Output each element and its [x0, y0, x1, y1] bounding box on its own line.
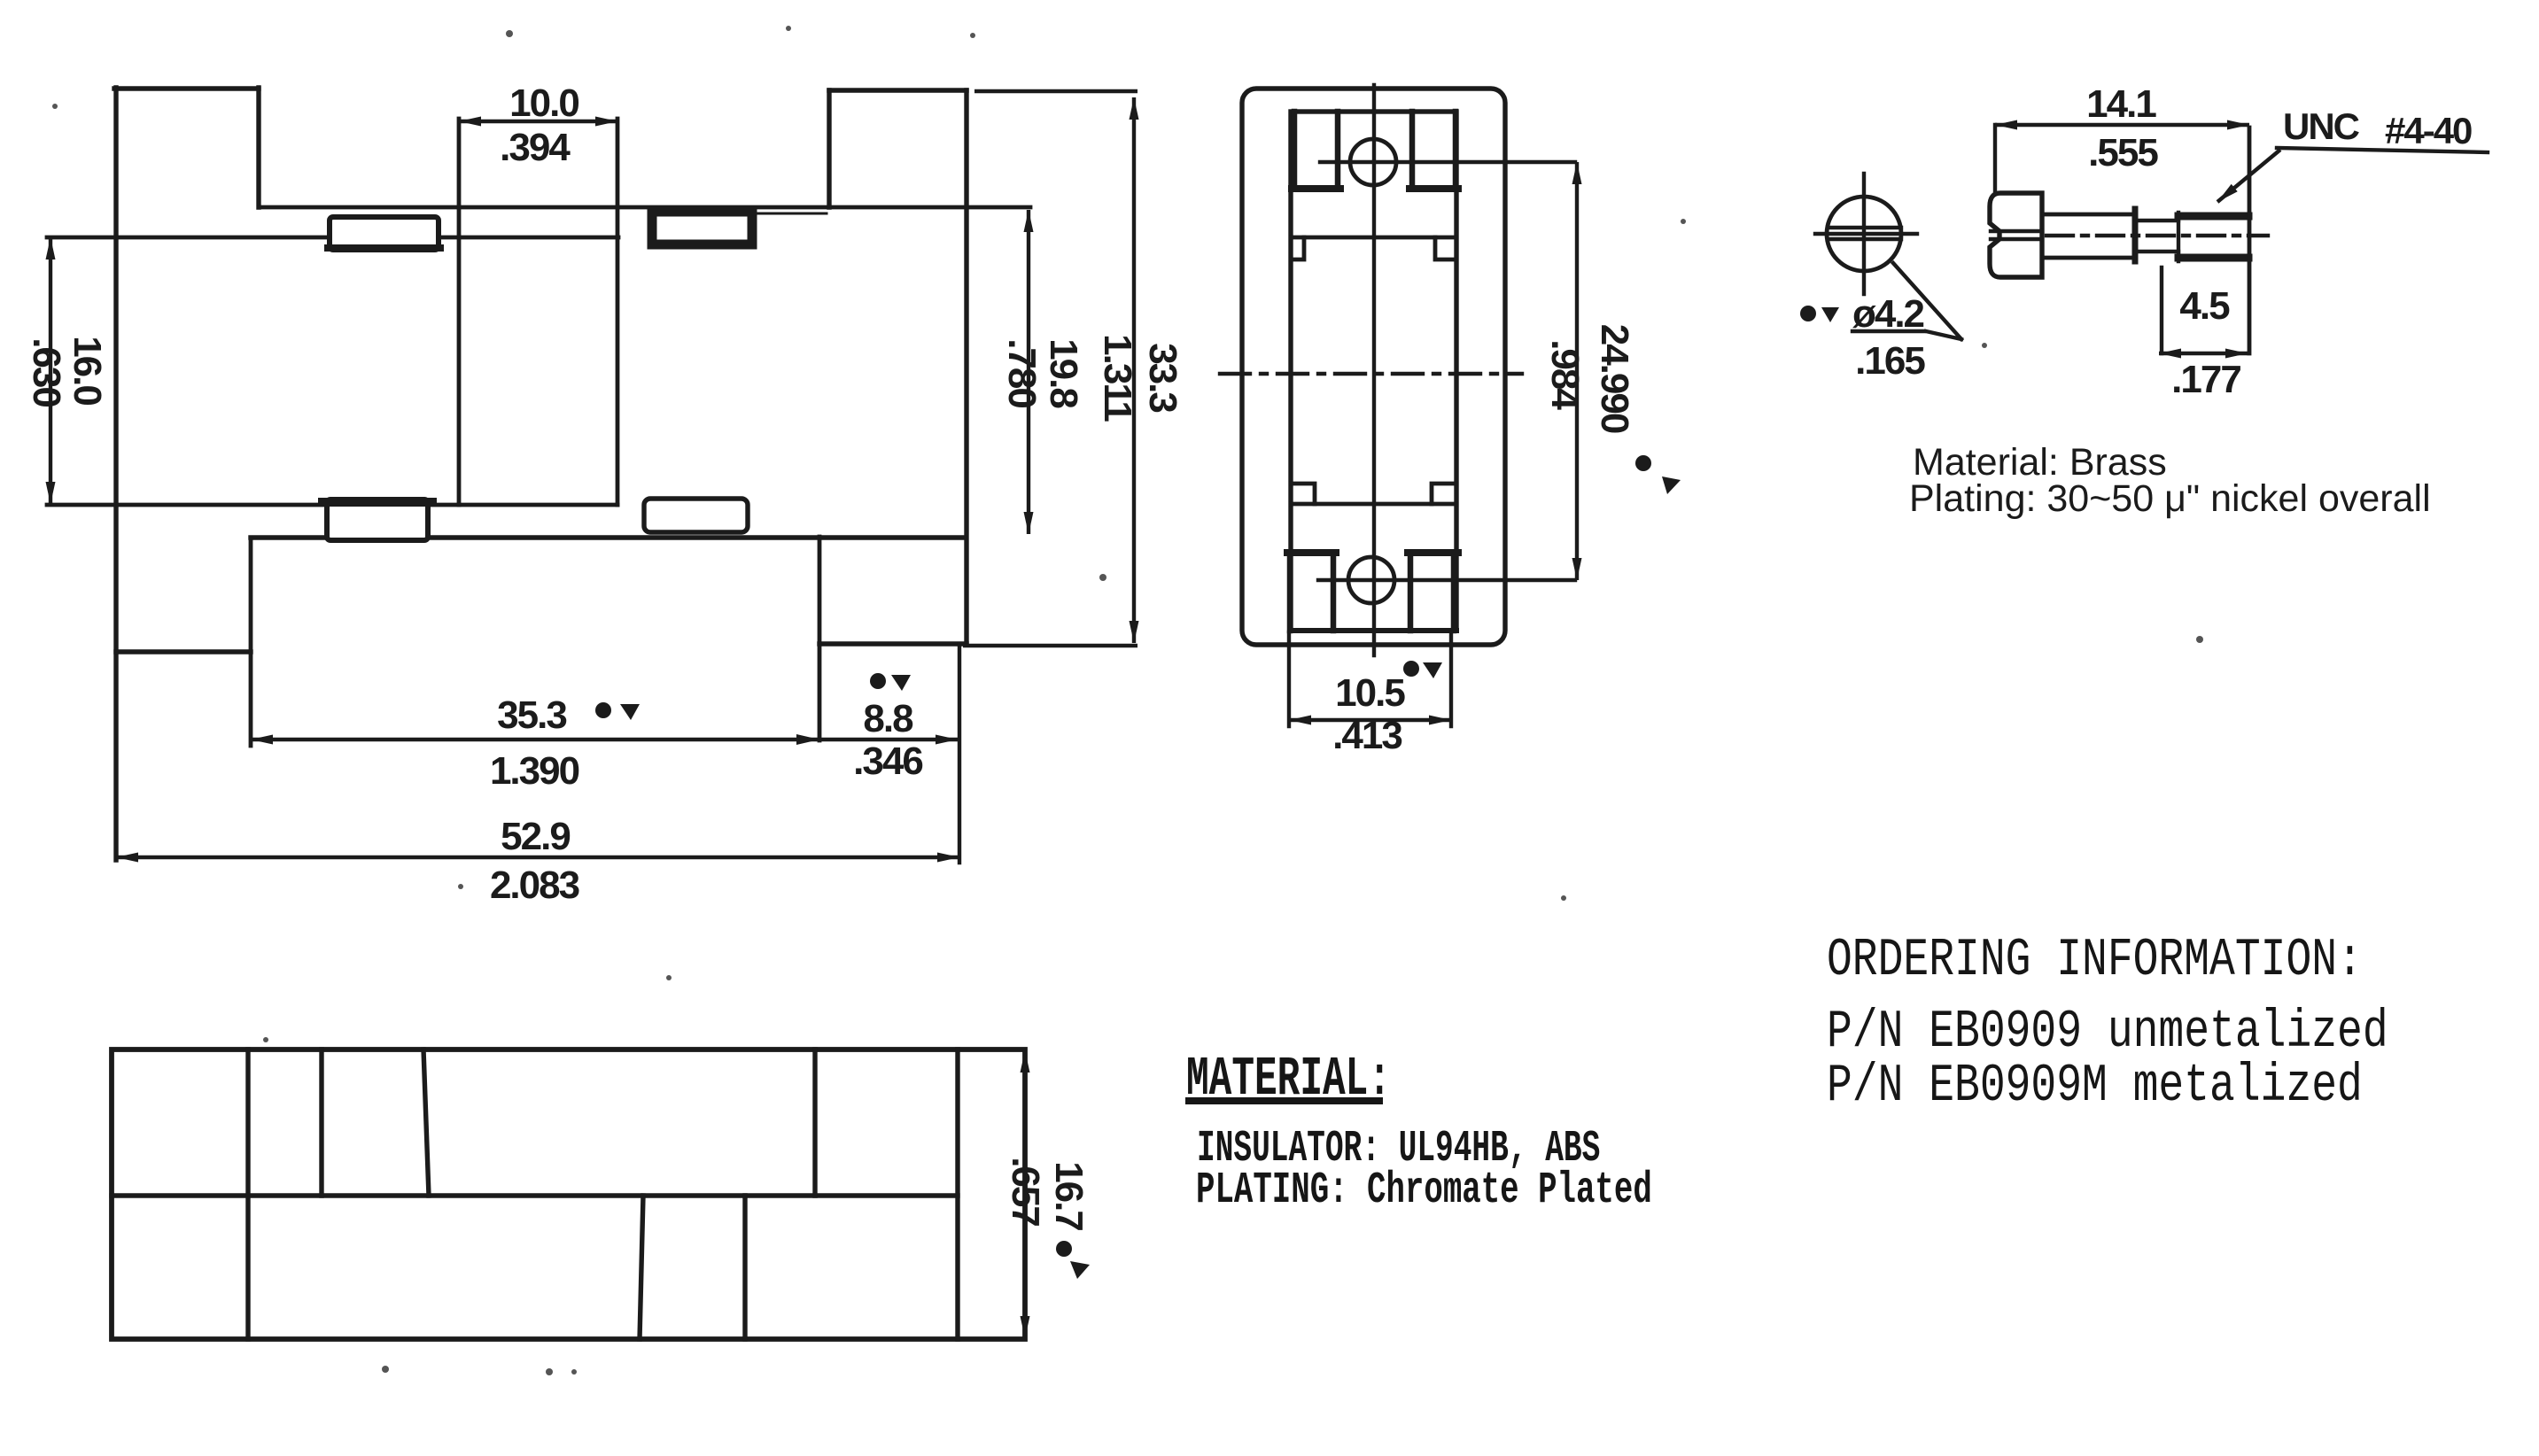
- svg-text:1.311: 1.311: [1096, 334, 1139, 422]
- svg-text:ORDERING INFORMATION:: ORDERING INFORMATION:: [1827, 931, 2363, 990]
- front view: cavity bottom edge + 16.0 bottom extension: [47, 503, 617, 507]
- svg-text:.630: .630: [25, 337, 68, 407]
- svg-text:2.083: 2.083: [490, 864, 579, 907]
- MATERIAL underline: [1185, 1097, 1383, 1104]
- side view: lower inner shelf line: [1291, 502, 1456, 507]
- screw end view: horizontal center line: [1815, 232, 1917, 236]
- svg-text:8.8: 8.8: [863, 697, 913, 740]
- side view: lower-left notch: [1291, 484, 1315, 504]
- leader line from circle to o4.2 note: [1893, 263, 1961, 339]
- svg-text:.394: .394: [500, 126, 571, 169]
- 10.5 right extension: [1449, 632, 1453, 726]
- screw collar: [2132, 209, 2139, 261]
- front view: bottom-left step bottom edge: [116, 649, 251, 654]
- 8.8 right extension line: [958, 644, 961, 863]
- wall edge right of top slot: [758, 213, 827, 215]
- bottom view: full-height vertical x=1081: [955, 1049, 959, 1339]
- svg-text:10.5: 10.5: [1335, 671, 1405, 715]
- dimension line 52.9: [116, 856, 959, 859]
- front view: top-right tab top edge: [829, 88, 967, 92]
- front view: outer right edge: [964, 90, 968, 644]
- side view: upper-left notch: [1291, 237, 1304, 259]
- dimension line 33.3: [1132, 97, 1136, 643]
- svg-text:10.0: 10.0: [509, 81, 578, 125]
- front view: body bottom edge: [251, 535, 965, 539]
- screw thread bottom (heavy): [2178, 254, 2248, 262]
- 14.1 left extension: [1993, 125, 1997, 193]
- screw center line (dash-dot): [2046, 234, 2268, 237]
- svg-text:Plating: 30~50 μ" nickel ov: Plating: 30~50 μ" nickel overall: [1909, 477, 2431, 520]
- svg-text:P/N EB0909 unmetalized: P/N EB0909 unmetalized: [1827, 1003, 2388, 1062]
- side view: vertical center line: [1372, 85, 1376, 655]
- 35.3 right arrowhead at separator: [796, 734, 819, 745]
- side view: bottom-left block: [1290, 553, 1333, 631]
- side view: inner rect heavy bottom: [1291, 628, 1456, 633]
- screw end view: vertical center line: [1862, 174, 1866, 294]
- front view: skirt left edge + 35.3 left extension: [249, 538, 253, 746]
- svg-text:.413: .413: [1332, 714, 1401, 757]
- front view: cavity top edge + 16.0 top extension: [47, 236, 618, 240]
- 10.5 left extension: [1287, 632, 1291, 726]
- dimension line 4.5: [2159, 352, 2248, 355]
- front view: outer left edge + 52.9 left extension: [113, 88, 118, 860]
- 33.3 top extension line: [974, 89, 1138, 93]
- side view: top hole center line + 24.990 top extension: [1320, 160, 1575, 164]
- dimension line 35.3 / 8.8: [251, 738, 958, 741]
- svg-text:24.990: 24.990: [1593, 324, 1636, 433]
- slot top-left: [330, 217, 439, 250]
- svg-text:.177: .177: [2171, 358, 2240, 401]
- screw head outline: [1990, 193, 2042, 277]
- side view: upper-right notch: [1435, 237, 1456, 259]
- svg-text:1.390: 1.390: [490, 749, 579, 793]
- screw shank top/bottom: [2042, 214, 2135, 258]
- front view: top-left tab right edge: [256, 88, 260, 207]
- dimension 16.7 arrows on right edge: [1023, 1050, 1027, 1338]
- svg-text:.780: .780: [1000, 338, 1044, 407]
- screw thread left edge: [2177, 213, 2180, 261]
- screw thread right edge: [2248, 128, 2252, 353]
- bottom view: top-half vertical x=480: [423, 1049, 429, 1196]
- side view: lower-right notch: [1432, 484, 1456, 504]
- front view dimension texts: [25, 81, 1184, 907]
- screw neck: [2137, 221, 2178, 252]
- side view: upper inner shelf line: [1291, 236, 1456, 240]
- side view: bottom hole center line + 24.990 bottom extension: [1318, 578, 1575, 582]
- svg-text:.346: .346: [853, 740, 922, 783]
- side view: top screw hole circle: [1350, 139, 1396, 185]
- svg-text:19.8: 19.8: [1042, 338, 1085, 408]
- UNC label underline: [2277, 148, 2488, 152]
- side view: bottom screw hole circle: [1348, 557, 1394, 603]
- svg-text:P/N EB0909M metalized: P/N EB0909M metalized: [1827, 1057, 2363, 1116]
- front view: center boss right edge + 10.0 right extension: [616, 119, 620, 505]
- footnote dot+triangle below 24.990: [1635, 455, 1681, 494]
- dimension line 16.0: [49, 237, 52, 504]
- dimension line 24.990: [1575, 162, 1579, 580]
- side view: inner rectangle: [1291, 112, 1456, 631]
- 4.5 left extension: [2160, 267, 2163, 353]
- front view: bottom-right tab bottom edge: [819, 641, 967, 646]
- front view: top-left tab top edge: [114, 86, 259, 90]
- footnote dot+triangle left of o4.2: [1800, 306, 1839, 322]
- slot bottom-right: [644, 499, 748, 532]
- dimension line 14.1: [1995, 123, 2249, 127]
- UNC leader line: [2217, 150, 2280, 202]
- bottom view: middle horizontal line: [112, 1193, 958, 1197]
- svg-text:4.5: 4.5: [2179, 284, 2230, 328]
- svg-text:.984: .984: [1543, 339, 1587, 410]
- svg-text:35.3: 35.3: [497, 693, 566, 737]
- svg-text:.165: .165: [1855, 339, 1925, 383]
- slot top-right (heavy): [652, 212, 752, 244]
- dimension line 10.5: [1289, 718, 1451, 722]
- svg-text:ø4.2: ø4.2: [1852, 292, 1924, 336]
- bottom view: top-half vertical x=920: [812, 1049, 817, 1196]
- svg-text:.657: .657: [1004, 1157, 1047, 1226]
- dimension line 10.0: [459, 120, 617, 123]
- svg-text:14.1: 14.1: [2086, 82, 2156, 126]
- dimension line 19.8: [1027, 210, 1030, 534]
- slot bottom-left (heavy): [327, 500, 428, 540]
- svg-text:UNC: UNC: [2283, 105, 2360, 147]
- o4.2 fraction line: [1852, 329, 1924, 333]
- side view: top-right block: [1412, 112, 1456, 189]
- footnote dot+triangle after 35.3: [595, 702, 640, 720]
- footnote dot+triangle above 8.8: [870, 673, 911, 691]
- svg-text:52.9: 52.9: [501, 815, 570, 858]
- side view: outer rounded body: [1242, 89, 1505, 645]
- footnote dot+triangle right of 10.5: [1403, 661, 1442, 678]
- side view: top-left block: [1294, 112, 1338, 189]
- bottom view: full-height vertical x=280: [245, 1049, 250, 1339]
- svg-text:16.0: 16.0: [66, 336, 109, 405]
- screw end view: circle: [1827, 197, 1901, 271]
- bottom view: bottom-half vertical x=841: [742, 1196, 747, 1339]
- 33.3 bottom extension line: [963, 644, 1138, 647]
- svg-text:16.7: 16.7: [1047, 1161, 1091, 1230]
- front view: center boss left edge + 10.0 left extension: [457, 119, 462, 505]
- screw thread top (heavy): [2178, 213, 2248, 221]
- svg-text:#4-40: #4-40: [2385, 110, 2472, 151]
- screw end view: slot lines: [1828, 228, 1901, 239]
- bottom view: bottom-half vertical x=724: [640, 1196, 643, 1339]
- svg-text:.555: .555: [2088, 131, 2158, 174]
- front view: bottom-right tab left edge + 35.3/8.8 separator extension: [818, 537, 822, 740]
- bottom view: top-half vertical x=363: [319, 1049, 323, 1196]
- svg-text:33.3: 33.3: [1141, 343, 1184, 412]
- svg-text:PLATING: Chromate Plated: PLATING: Chromate Plated: [1196, 1166, 1652, 1216]
- side view: bottom-right block: [1410, 553, 1454, 631]
- footnote dot+triangle below 16.7 (rotated): [1056, 1241, 1090, 1279]
- scan specks: [52, 26, 2203, 1375]
- front view: top-right tab left edge: [827, 90, 831, 207]
- side view: horizontal center line (dash-dot): [1220, 372, 1522, 376]
- screw head slot lines: [1991, 231, 2042, 239]
- bottom view: outer rectangle: [112, 1049, 1025, 1339]
- front view: body top edge + 19.8 top extension: [259, 205, 1030, 210]
